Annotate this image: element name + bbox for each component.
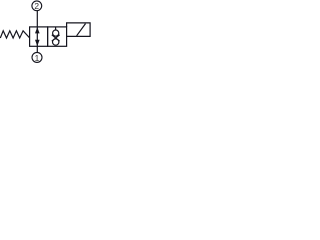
solenoid diagonal	[77, 24, 86, 36]
poppet ball upper	[53, 30, 59, 36]
port circle 2	[32, 1, 42, 11]
flow arrow line	[36, 27, 38, 46]
poppet ball lower	[53, 39, 59, 45]
valve body right box (closed position)	[48, 27, 67, 46]
valve body left box (open position)	[30, 27, 48, 46]
svg-text:1: 1	[35, 53, 40, 63]
wire from valve to port 1	[36, 46, 38, 52]
port circle 1	[32, 52, 42, 62]
seat line 2	[52, 35, 60, 41]
solenoid box	[67, 23, 91, 37]
wire from port 2 to valve	[36, 11, 38, 27]
arrowhead up	[35, 27, 40, 33]
svg-text:2: 2	[34, 1, 39, 11]
spring	[0, 31, 29, 38]
poppet stem	[55, 27, 57, 30]
seat line 1	[52, 35, 60, 41]
arrowhead down	[35, 40, 40, 46]
